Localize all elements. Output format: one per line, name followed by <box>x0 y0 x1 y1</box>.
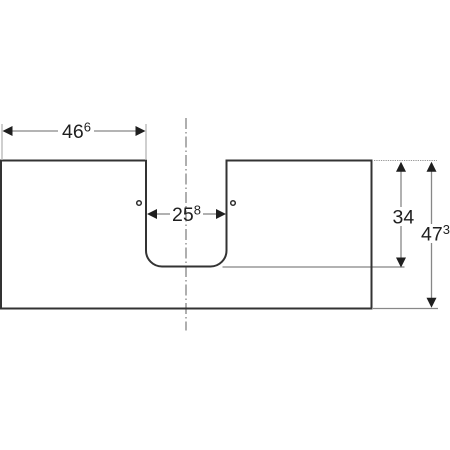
extension line bottom for 47.3 <box>373 308 438 310</box>
hole right <box>231 201 236 206</box>
arrow right 46.6 <box>136 126 146 136</box>
svg-text:473: 473 <box>421 222 450 246</box>
countertop outline with U-cutout <box>1 161 372 309</box>
dimension line 47.3 <box>431 163 433 224</box>
arrow up 47.3 <box>427 162 437 172</box>
cutout bottom level line <box>223 266 405 268</box>
arrow left 46.6 <box>3 126 13 136</box>
centerline <box>185 118 187 331</box>
extension line left for 46.6 <box>1 124 3 160</box>
svg-text:466: 466 <box>62 120 91 144</box>
arrow up 34 <box>396 162 406 172</box>
dotted extension line top for 47.3 <box>374 160 437 162</box>
dimension line 25.8 <box>155 213 170 215</box>
dimension line 34 <box>400 163 402 207</box>
dimension line 46.6 <box>11 130 58 132</box>
svg-text:258: 258 <box>172 203 201 227</box>
extension line right for 46.6 <box>145 124 147 160</box>
arrow down 47.3 <box>427 298 437 308</box>
arrow left 25.8 <box>147 209 157 219</box>
arrow right 25.8 <box>216 209 226 219</box>
arrow down 34 <box>396 258 406 268</box>
hole left <box>137 201 142 206</box>
svg-text:34: 34 <box>393 207 415 229</box>
